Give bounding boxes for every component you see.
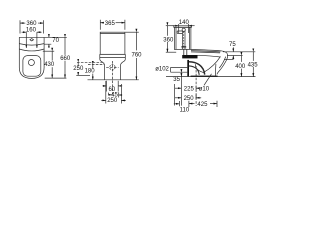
drain centerline view3 dashed bbox=[195, 66, 197, 106]
dim 225 arrows bbox=[175, 87, 181, 89]
rim deck black band bbox=[184, 49, 187, 57]
svg-text:160: 160 bbox=[26, 28, 37, 34]
bowl inner curve bbox=[204, 56, 221, 72]
dim 365 line with arrows bbox=[100, 22, 104, 24]
tube seat ticks bbox=[181, 46, 186, 47]
dim 250 left line bbox=[77, 62, 79, 66]
svg-text:225: 225 bbox=[184, 86, 195, 92]
seat hinge circle bbox=[28, 60, 34, 66]
dim 360 line with arrows bbox=[20, 22, 25, 24]
dim 250 bottom arrows bbox=[101, 99, 106, 101]
view1 bottom extension line bbox=[45, 77, 67, 79]
cistern tank outline bbox=[174, 27, 191, 49]
dim 360 bottom extension bbox=[166, 51, 176, 53]
left reference bar long bbox=[180, 77, 182, 106]
seat top extension line right bbox=[223, 51, 255, 53]
cistern rect rear bbox=[100, 32, 125, 54]
diameter 10 leader line bbox=[204, 74, 212, 86]
svg-text:660: 660 bbox=[60, 56, 71, 62]
dim 110 arrows bbox=[174, 103, 180, 105]
dim 60 arrows bbox=[102, 85, 106, 87]
tube hatch dashes bbox=[183, 32, 185, 48]
cistern lid slab bbox=[174, 26, 192, 28]
rim top extension line right bbox=[227, 55, 243, 57]
rim lines to nose bbox=[198, 55, 221, 57]
seat bottom line bbox=[191, 52, 220, 53]
tank inner walls bbox=[176, 27, 189, 49]
trap weir curve bbox=[195, 64, 203, 72]
svg-text:425: 425 bbox=[197, 102, 208, 108]
pedestal front line bbox=[215, 64, 217, 76]
svg-text:180: 180 bbox=[85, 69, 96, 75]
dim 250 left bottom reference line bbox=[76, 74, 90, 76]
svg-text:360: 360 bbox=[26, 21, 37, 27]
trap outer curve bbox=[189, 62, 205, 75]
floor line view3 bbox=[166, 76, 256, 78]
drain centerline dashed vertical bbox=[111, 61, 113, 96]
dim 365 extension bars bbox=[100, 20, 125, 30]
svg-text:400: 400 bbox=[235, 64, 246, 70]
dim 660 line bbox=[64, 37, 66, 55]
dim 160 line with outside arrows bbox=[22, 31, 27, 33]
svg-text:140: 140 bbox=[179, 20, 190, 26]
svg-text:360: 360 bbox=[163, 37, 174, 43]
dim 360 top extension bbox=[166, 25, 174, 27]
dim 35 line with arrows bbox=[180, 73, 182, 77]
svg-text:250: 250 bbox=[107, 98, 118, 104]
seat outer rounded rect bbox=[23, 56, 41, 77]
rim band lines bbox=[100, 54, 126, 57]
dim 45 corner leader bbox=[109, 93, 112, 95]
dim 430 top extension line bbox=[43, 50, 54, 52]
dim 160 extension lines into cistern with down arrows bbox=[25, 32, 27, 48]
push button diamond bbox=[30, 39, 34, 41]
svg-text:75: 75 bbox=[229, 42, 236, 48]
seat lid top line bbox=[191, 50, 227, 54]
dim 250 bottom bars bbox=[106, 81, 122, 104]
seat mid line bbox=[191, 51, 221, 52]
svg-text:760: 760 bbox=[131, 53, 142, 59]
dim 760 top extension bbox=[125, 31, 139, 33]
outlet pipe bbox=[171, 67, 188, 72]
tube float circle bbox=[182, 28, 185, 31]
trap second curve bbox=[189, 66, 199, 75]
seat lid arc bbox=[19, 49, 44, 51]
dim 140 extension ticks bbox=[179, 24, 189, 33]
dim 400 line bbox=[240, 56, 242, 62]
svg-text:110: 110 bbox=[180, 108, 190, 114]
bowl front outer bbox=[217, 54, 228, 75]
dim 75 arrows bbox=[232, 47, 234, 52]
dim 110 bars bbox=[178, 101, 180, 106]
centerline solid reference ticks bbox=[195, 86, 197, 100]
dim 360 extension bars bbox=[20, 20, 43, 33]
svg-text:365: 365 bbox=[105, 21, 116, 27]
dim 435 line bbox=[252, 52, 254, 61]
cistern lid line bbox=[100, 33, 125, 35]
dim 70 line with outside arrows bbox=[48, 35, 50, 38]
dim 430 line bbox=[51, 51, 53, 60]
dim 425 bars bbox=[189, 101, 217, 107]
wall extension line bbox=[173, 84, 175, 106]
drain dashed circle bbox=[110, 65, 115, 70]
drain cross dashed horizontal bbox=[106, 66, 118, 68]
dim 140 line with outside arrows bbox=[173, 25, 179, 27]
overflow tube bbox=[183, 31, 186, 49]
toilet plan outer outline bbox=[19, 37, 44, 78]
svg-text:430: 430 bbox=[44, 62, 55, 68]
dim 180 left line bbox=[92, 64, 94, 68]
foot black base bbox=[191, 76, 218, 77]
bowl front inner shell bbox=[219, 57, 225, 68]
dim 45 right bar and arrow bbox=[118, 92, 120, 97]
svg-text:435: 435 bbox=[248, 63, 259, 69]
rear section cut black bar bbox=[187, 60, 189, 76]
svg-text:ø102: ø102 bbox=[155, 66, 169, 72]
dim 425 line with arrows bbox=[189, 103, 195, 105]
floor line view2 bbox=[88, 79, 139, 81]
pedestal taper outline bbox=[100, 54, 126, 79]
dim 180 dashed reference bbox=[88, 63, 104, 65]
dim 760 line bbox=[135, 32, 137, 50]
cistern lid arc bbox=[19, 44, 44, 46]
svg-text:ø10: ø10 bbox=[199, 87, 210, 93]
dim 60 extension bars bbox=[106, 81, 118, 92]
dim 70 extension lines bbox=[44, 37, 67, 44]
dim 75 lower tail line bbox=[224, 58, 233, 60]
svg-text:35: 35 bbox=[173, 77, 180, 83]
inlet dashed line left bbox=[77, 61, 104, 63]
dim 360 side line bbox=[166, 26, 168, 36]
fill valve detail bbox=[177, 31, 182, 33]
svg-text:70: 70 bbox=[52, 38, 59, 44]
dim 250 side arrows bbox=[175, 97, 181, 99]
svg-text:250: 250 bbox=[73, 66, 84, 72]
